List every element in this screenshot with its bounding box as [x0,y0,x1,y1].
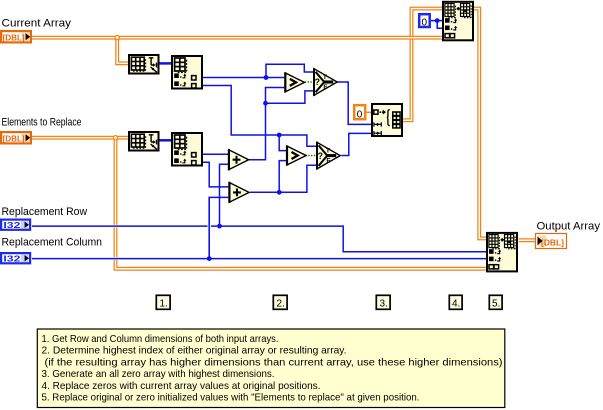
wire: Greater 1 boolean to Select 1 (green dashed) [305,81,313,83]
terminal: Replacement Row I32 [1,220,30,231]
svg-text:5. Replace original or zero in: 5. Replace original or zero initialized … [42,393,420,404]
label box 3 [376,295,390,309]
add node 1 [228,149,249,170]
select node 2 [316,142,340,170]
svg-text:1. Get Row and Column dimensio: 1. Get Row and Column dimensions of both… [42,334,279,345]
svg-text:Replacement Column: Replacement Column [2,236,103,248]
junction node C [277,133,282,138]
wire break where Replacement Column vertical crosses [208,225,211,227]
junction on Current Array wire [115,36,119,40]
add node 2 [228,182,249,203]
wire crossing breaks on orange vertical [113,225,118,228]
svg-text:3.: 3. [380,299,388,310]
terminal: Current Array [DBL] [1,31,31,42]
wire: vertical into Add 2 redrawn over break [208,197,210,258]
wire: Select 1 output to Initialize Array dim0 [337,82,371,124]
wire: Replacement Column to Replace Array Subset 2 [32,258,486,260]
wire: branch from node B to Select 1 false input [266,91,314,103]
junction node A [264,75,269,80]
wire: node D across to Select 2 false input [279,165,316,192]
label box 4 [449,295,462,309]
svg-text:Output Array: Output Array [537,221,601,233]
replace array subset node 2 [487,233,517,272]
constant: DBL 0 [354,105,365,120]
wire: node C down to Greater 2 upper input [279,135,286,151]
label box 2 [273,295,287,309]
junction node D [277,190,282,195]
label box 1 [156,295,170,309]
svg-text:[DBL]: [DBL] [541,237,564,247]
svg-text:Elements to Replace: Elements to Replace [2,116,82,128]
label box 5 [489,295,502,309]
replace array subset node 1 [443,2,473,41]
wire: Index Array 2 column size to Add 2 upper input [203,162,228,187]
wire: Add 1 output up to Greater 1 lower input [249,88,285,160]
wire: Index Array 2 row size to Add 1 upper input [203,153,228,155]
wire: Current Array branch down to Array Size 1 [117,36,128,64]
svg-text:Replacement Row: Replacement Row [2,206,88,218]
greater node 2 [286,146,306,166]
array size node 2 [129,132,159,151]
wire: Add 2 output to node D [250,191,279,193]
wire: Array Size 2 to Index Array 2 (1D I32) [160,139,172,142]
junction on Elements to Replace wire [113,136,117,140]
junction node B [263,101,268,106]
svg-text:4.: 4. [452,299,460,310]
terminal: Replacement Column I32 [1,253,30,264]
wire: Index Array 1 column size down to node C [203,86,279,136]
initialize array node [372,104,402,136]
junction at I32 0 constant [435,18,440,23]
select node 1 [313,68,337,96]
wire: Initialize Array output to Replace Array Subset 1 (2D DBL) [403,9,442,121]
junction on Replacement Column wire [207,256,212,261]
svg-text:0: 0 [422,17,428,28]
wire: node D up to Greater 2 lower input [279,161,286,193]
junction on Replacement Row wire [217,224,222,229]
wire: Replacement Column up to Add 2 lower input [209,197,228,258]
wire: I32 0 constant to Replace Array Subset 1 index inputs [431,21,442,29]
array size node 1 [129,55,159,74]
wire: Current Array trunk (2D DBL) [32,36,442,40]
wire: node C across to Select 2 true input [279,135,316,146]
svg-text:4. Replace zeros with current: 4. Replace zeros with current array valu… [42,381,321,392]
greater node 1 [284,72,304,92]
comment box [37,329,505,408]
wire: Elements branch down and across to Replace Array Subset 2 [116,136,487,269]
svg-text:(if the resulting array has hi: (if the resulting array has higher dimen… [45,357,503,368]
wire: Select 2 output to Initialize Array dim1 [341,133,371,155]
svg-text:3. Generate an all zero array: 3. Generate an all zero array with highe… [42,369,275,380]
svg-text:5.: 5. [492,299,500,310]
wire: Index Array 1 row size to Greater 1 [203,77,284,79]
svg-text:1.: 1. [160,299,168,310]
terminal: Output Array [DBL] indicator [536,234,567,249]
wire: DBL 0 constant to Initialize Array element input [366,111,371,113]
wire: Greater 2 boolean to Select 2 (green dashed) [306,155,317,157]
constant: I32 0 [419,14,430,28]
index array node 1 [172,56,202,89]
terminal: Elements to Replace [DBL] [1,132,31,143]
svg-text:2.: 2. [277,299,285,310]
wire: branch from node A to Select 1 true input [266,64,313,77]
wire: Replacement Row to Replace Array Subset 2 [32,226,486,252]
wire: Array Size 1 to Index Array 1 (1D I32) [160,62,172,65]
svg-text:0: 0 [357,109,363,120]
svg-text:2. Determine highest index of: 2. Determine highest index of either ori… [42,346,347,357]
wire: Replacement Row up to Add 1 lower input [220,164,229,226]
svg-text:Current Array: Current Array [2,17,72,29]
index array node 2 [172,133,202,166]
wire: Replace Array Subset 1 output down to Replace Array Subset 2 [474,9,486,239]
wire: Elements to Replace trunk to Array Size 2 (2D DBL) [32,136,128,140]
wire: Replace Array Subset 2 output to Output Array terminal [519,238,536,242]
